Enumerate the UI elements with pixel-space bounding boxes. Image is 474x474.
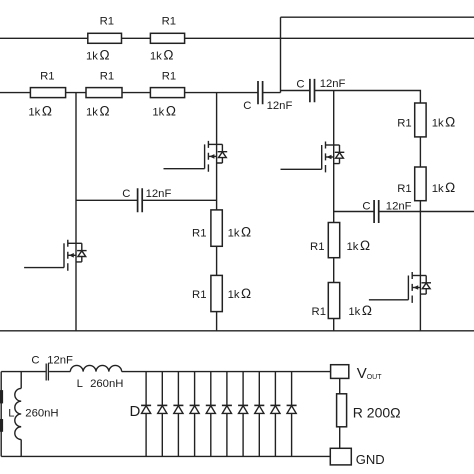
svg-text:C: C: [296, 79, 304, 91]
svg-text:12nF: 12nF: [386, 201, 412, 213]
svg-text:1kΩ: 1kΩ: [152, 104, 176, 119]
svg-text:1kΩ: 1kΩ: [86, 104, 110, 119]
svg-text:R1: R1: [312, 306, 326, 318]
svg-text:1kΩ: 1kΩ: [347, 238, 371, 253]
svg-text:12nF: 12nF: [47, 355, 73, 367]
svg-text:R1: R1: [100, 15, 114, 27]
svg-text:C: C: [122, 188, 130, 200]
svg-text:R1: R1: [397, 183, 411, 195]
svg-text:1kΩ: 1kΩ: [86, 48, 110, 63]
svg-text:12nF: 12nF: [146, 188, 172, 200]
svg-text:12nF: 12nF: [267, 100, 293, 112]
svg-text:1kΩ: 1kΩ: [228, 286, 252, 301]
svg-text:L: L: [77, 378, 83, 390]
svg-text:R1: R1: [397, 117, 411, 129]
svg-text:R1: R1: [192, 289, 206, 301]
svg-text:R1: R1: [100, 70, 114, 82]
svg-text:1kΩ: 1kΩ: [228, 225, 252, 240]
svg-text:12nF: 12nF: [320, 78, 346, 90]
svg-text:260nH: 260nH: [90, 378, 123, 390]
svg-text:R1: R1: [162, 15, 176, 27]
svg-text:C: C: [362, 201, 370, 213]
svg-text:C: C: [243, 100, 251, 112]
svg-text:R1: R1: [192, 228, 206, 240]
svg-text:1kΩ: 1kΩ: [432, 114, 456, 129]
svg-text:260nH: 260nH: [25, 408, 58, 420]
svg-text:R1: R1: [40, 70, 54, 82]
svg-text:1kΩ: 1kΩ: [28, 104, 52, 119]
svg-text:L: L: [8, 408, 14, 420]
svg-text:1kΩ: 1kΩ: [348, 303, 372, 318]
svg-text:1kΩ: 1kΩ: [432, 180, 456, 195]
svg-text:D: D: [130, 403, 141, 420]
svg-text:1kΩ: 1kΩ: [150, 48, 174, 63]
svg-text:GND: GND: [356, 452, 385, 467]
svg-text:R 200Ω: R 200Ω: [353, 405, 401, 421]
svg-text:R1: R1: [162, 70, 176, 82]
svg-text:C: C: [31, 355, 39, 367]
svg-text:R1: R1: [310, 241, 324, 253]
